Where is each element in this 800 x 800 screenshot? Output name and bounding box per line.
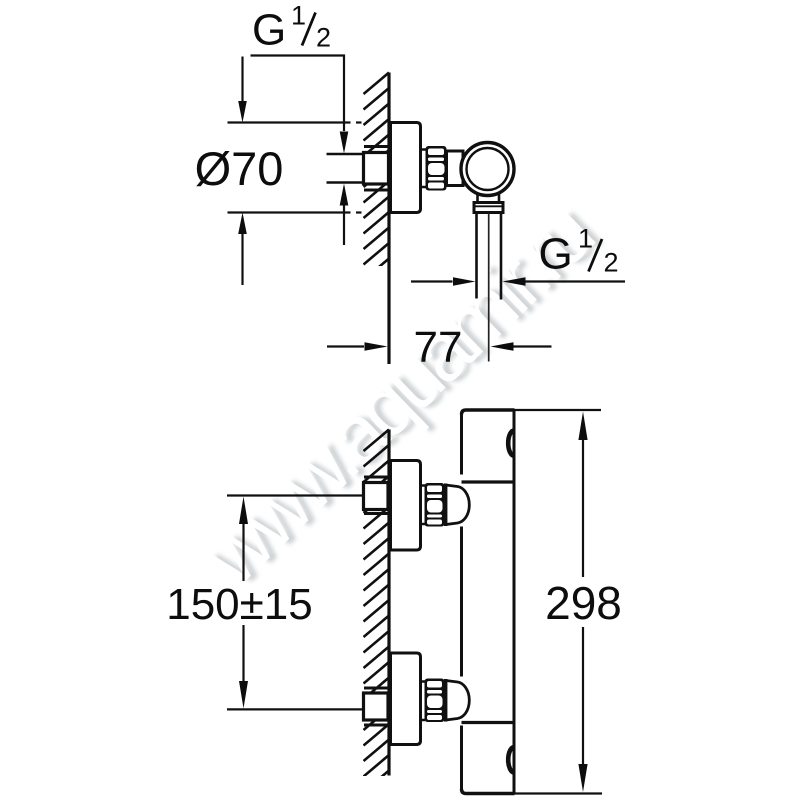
- svg-text:77: 77: [414, 323, 463, 372]
- faucet body top edge + 298 top extension: [462, 410, 515, 415]
- svg-text:1: 1: [578, 224, 593, 254]
- threaded stub square 1: [364, 483, 389, 510]
- faucet body bottom edge + 298 bottom extension: [462, 789, 515, 794]
- svg-text:298: 298: [545, 577, 622, 629]
- dome cap 2: [446, 681, 470, 721]
- outlet flange (top view): [474, 203, 503, 213]
- watermark www.aquamir.ru: [0, 0, 1, 1]
- svg-text:150±15: 150±15: [166, 580, 313, 629]
- stub flange lines 1: [364, 476, 388, 479]
- union nut 1: [425, 483, 445, 527]
- collar lines 2: [421, 680, 426, 683]
- union nut (top view): [426, 146, 447, 191]
- leader tail below stub: [343, 206, 345, 246]
- 150±15 extension line lower: [227, 708, 362, 710]
- collar lines escutcheon-nut (top view): [421, 148, 427, 151]
- hose G1/2 dimension left: [411, 280, 453, 282]
- wall face line (bottom view): [387, 430, 390, 776]
- escutcheon 2 (bottom view): [391, 653, 421, 745]
- Ø70 dim line lower: [238, 213, 247, 235]
- wall hatching (top view): [364, 73, 390, 296]
- 298 dim line: [578, 412, 587, 441]
- 150±15 extension line upper: [227, 494, 362, 496]
- escutcheon 1 (bottom view): [391, 461, 421, 551]
- svg-text:G: G: [539, 230, 573, 279]
- Ø70 extension line top: [228, 121, 351, 123]
- hose centerline: [488, 213, 490, 362]
- button crescent upper: [508, 431, 514, 456]
- svg-text:G: G: [252, 6, 286, 55]
- svg-text:2: 2: [316, 23, 331, 53]
- dome cap 1: [446, 485, 470, 525]
- arrow down at stub top: [340, 132, 349, 154]
- body joint line lower: [462, 721, 515, 724]
- label G 1/2 (right): [539, 224, 619, 279]
- wall stub flange lines (top view): [364, 145, 389, 148]
- G1/2 thread extension lines: [327, 153, 363, 155]
- svg-text:1: 1: [291, 1, 306, 31]
- 150±15 dim line: [239, 497, 248, 525]
- faucet body left edge segments: [460, 413, 463, 475]
- outlet neck (top view): [476, 193, 479, 203]
- 77 dimension left: [327, 345, 364, 347]
- button crescent lower: [508, 747, 514, 772]
- threaded stub square 2: [364, 693, 389, 720]
- label G 1/2 (top): [252, 1, 331, 55]
- Ø70 dim line upper: [241, 57, 243, 102]
- escutcheon (top view, side): [391, 123, 421, 213]
- valve body tube (top view): [447, 151, 464, 186]
- wall hatching (bottom view): [364, 430, 390, 793]
- wall face line (top view): [387, 73, 390, 365]
- body joint line upper: [462, 480, 515, 483]
- hose outline lines: [475, 213, 478, 299]
- hose G1/2 dimension right: [503, 277, 526, 286]
- handle circle (top view): [461, 143, 514, 196]
- collar lines 1: [421, 484, 426, 487]
- stub flange lines 2: [364, 687, 388, 690]
- union nut 2: [425, 679, 445, 723]
- faucet body right edge: [513, 410, 516, 794]
- leader line G1/2 top: [251, 56, 345, 132]
- svg-text:2: 2: [604, 248, 619, 278]
- arrow up at stub bottom: [340, 184, 349, 206]
- 77 dimension right: [491, 342, 514, 351]
- svg-text:Ø70: Ø70: [195, 142, 284, 195]
- Ø70 extension line bottom: [228, 211, 351, 213]
- threaded stub square (top view): [364, 153, 389, 185]
